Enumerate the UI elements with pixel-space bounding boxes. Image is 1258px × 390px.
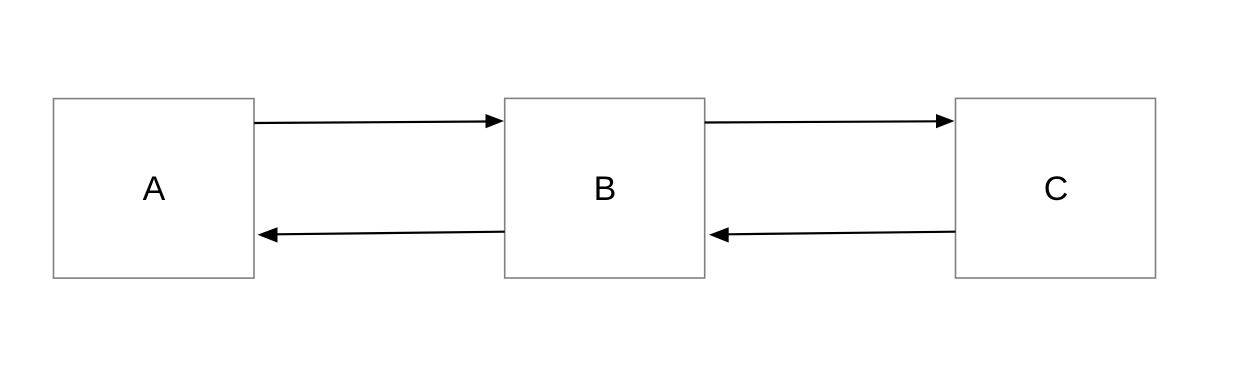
- wire arrow B to C: [705, 114, 955, 128]
- svg-text:A: A: [143, 170, 166, 208]
- svg-text:C: C: [1044, 170, 1069, 208]
- wire arrow C to B: [709, 227, 956, 242]
- node A: [54, 99, 255, 279]
- node B: [505, 98, 705, 278]
- svg-text:B: B: [594, 170, 617, 208]
- wire arrow A to B: [254, 114, 504, 128]
- wire arrow B to A: [258, 227, 505, 242]
- node C: [956, 98, 1156, 278]
